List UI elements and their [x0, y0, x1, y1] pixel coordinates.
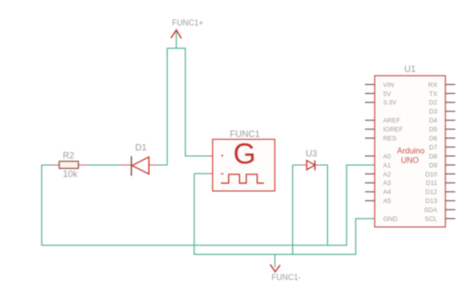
svg-text:U3: U3 — [306, 149, 318, 159]
wire generator minus pin — [194, 173, 207, 175]
svg-text:5V: 5V — [383, 91, 392, 98]
svg-text:D1: D1 — [135, 142, 147, 152]
svg-text:FUNC1-: FUNC1- — [272, 273, 302, 282]
pin marker plus — [221, 155, 223, 157]
wire net N1 upper bus (R2 left to U3 cathode to U1 pin A1) — [42, 165, 375, 245]
svg-text:D3: D3 — [429, 109, 438, 116]
svg-text:FUNC1+: FUNC1+ — [172, 19, 204, 28]
U1 right pin labels — [424, 82, 438, 223]
diode U3 — [301, 160, 320, 170]
svg-text:D4: D4 — [429, 118, 438, 125]
U1 right pin stubs — [445, 85, 455, 219]
pin marker minus — [221, 173, 224, 175]
svg-text:GND: GND — [383, 216, 398, 223]
wire R2 left lead to bus corner — [42, 164, 51, 166]
svg-text:U1: U1 — [404, 64, 416, 74]
svg-text:D10: D10 — [425, 171, 437, 178]
svg-text:D13: D13 — [425, 198, 437, 205]
svg-text:IOREF: IOREF — [383, 127, 403, 134]
wire U3 cathode lead — [319, 164, 327, 166]
svg-text:D6: D6 — [429, 135, 438, 142]
svg-text:D9: D9 — [429, 162, 438, 169]
svg-text:AREF: AREF — [383, 118, 400, 125]
svg-text:D8: D8 — [429, 153, 438, 160]
svg-text:G: G — [233, 139, 256, 171]
wire net FUNC1+ (D1 anode to generator plus pin) — [157, 32, 207, 166]
svg-text:UNO: UNO — [401, 156, 419, 165]
svg-text:R2: R2 — [63, 151, 75, 161]
svg-text:3.3V: 3.3V — [383, 100, 397, 107]
svg-text:TX: TX — [429, 91, 438, 98]
wire U3 anode lead — [293, 164, 301, 166]
svg-text:A2: A2 — [383, 171, 391, 178]
U1 left pin labels — [383, 82, 403, 223]
svg-text:Arduino: Arduino — [397, 146, 425, 155]
net flag FUNC1- arrow — [270, 265, 280, 272]
U1 left pin stubs — [365, 85, 375, 201]
wire R2 to D1 — [86, 164, 119, 166]
svg-text:10k: 10k — [63, 169, 78, 179]
svg-text:A5: A5 — [383, 198, 391, 205]
svg-text:A4: A4 — [383, 189, 391, 196]
svg-text:D11: D11 — [426, 180, 438, 187]
label Arduino UNO — [397, 146, 425, 165]
svg-text:A1: A1 — [383, 162, 391, 169]
svg-text:RX: RX — [428, 82, 438, 89]
svg-text:VIN: VIN — [383, 82, 394, 89]
svg-text:SDA: SDA — [424, 207, 438, 214]
svg-text:D5: D5 — [429, 127, 438, 134]
net flag FUNC1+ arrow — [171, 30, 181, 38]
svg-text:SCL: SCL — [425, 216, 438, 223]
diode D1 — [119, 156, 157, 176]
wire net N2 lower bus (FUNC1 minus to U3 anode to U1 pin GND) — [194, 165, 375, 267]
svg-text:RES: RES — [383, 135, 397, 142]
svg-text:A0: A0 — [383, 153, 391, 160]
svg-text:D2: D2 — [429, 100, 438, 107]
IC U1 Arduino UNO body — [375, 76, 446, 227]
resistor R2 — [51, 161, 86, 168]
generator FUNC1 — [207, 139, 274, 192]
svg-text:D12: D12 — [425, 189, 437, 196]
svg-text:FUNC1: FUNC1 — [230, 129, 260, 139]
svg-text:A3: A3 — [383, 180, 391, 187]
svg-text:D7: D7 — [429, 144, 438, 151]
